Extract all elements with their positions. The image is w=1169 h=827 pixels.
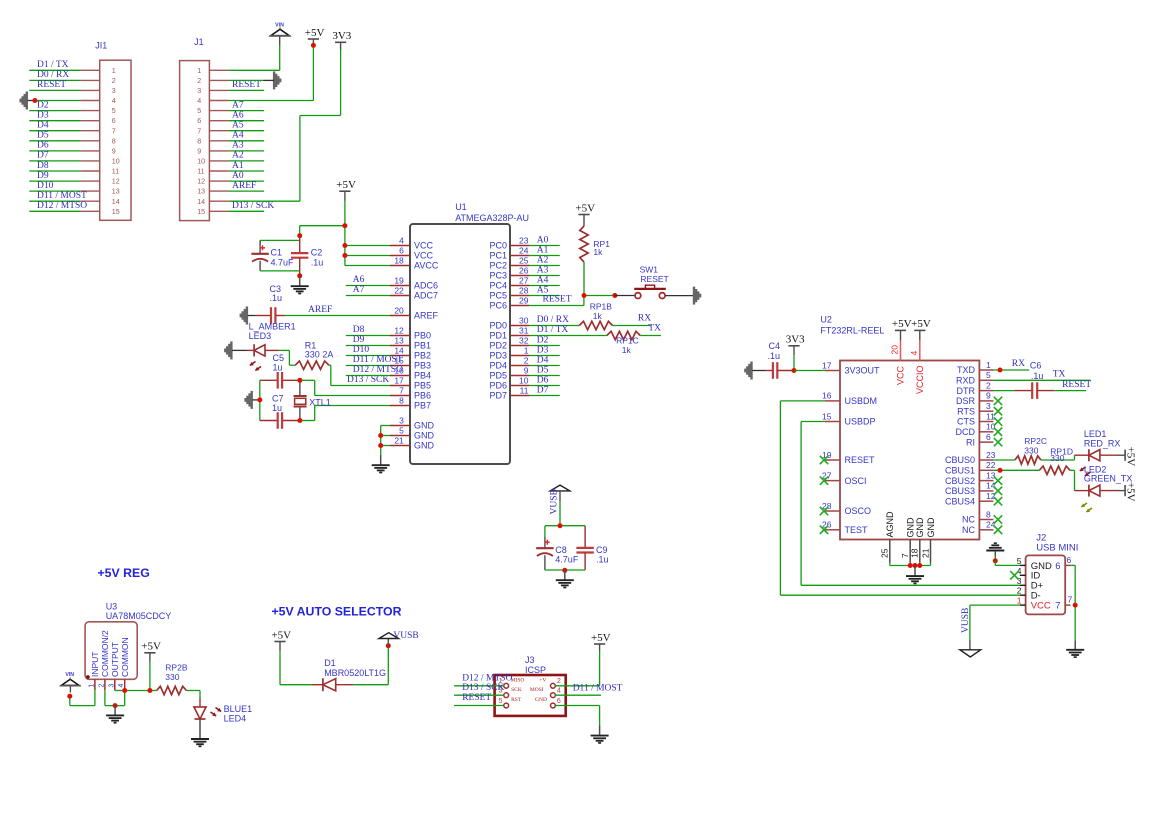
junction U1 GND 21	[378, 443, 383, 448]
svg-text:RESET: RESET	[640, 274, 668, 284]
capacitor C9 .1u	[576, 526, 608, 570]
svg-text:21: 21	[920, 548, 930, 558]
svg-text:D7: D7	[37, 151, 49, 161]
svg-text:9: 9	[524, 366, 529, 376]
svg-text:C1: C1	[271, 248, 283, 258]
svg-text:D2: D2	[537, 335, 549, 345]
wire net D3 at U1 right	[529, 355, 559, 357]
svg-text:D13 / SCK: D13 / SCK	[462, 683, 504, 693]
svg-text:AREF: AREF	[232, 181, 256, 191]
svg-text:CBUS3: CBUS3	[945, 486, 975, 496]
wire D1 to VUSB	[354, 646, 389, 685]
wire U3 common pins to ground	[105, 690, 125, 705]
svg-text:26: 26	[822, 520, 832, 530]
svg-text:A5: A5	[232, 121, 244, 131]
svg-text:D8: D8	[37, 161, 49, 171]
svg-text:PD4: PD4	[489, 361, 507, 371]
junction U2 gnd 3	[917, 563, 922, 568]
svg-text:1: 1	[986, 360, 991, 370]
connector J1	[180, 37, 229, 221]
svg-text:TXD: TXD	[957, 365, 976, 375]
svg-text:VUSB: VUSB	[393, 631, 418, 641]
svg-text:8: 8	[112, 137, 116, 145]
svg-text:VCC: VCC	[896, 365, 906, 385]
crystal XTL1	[294, 380, 331, 420]
junction U3 output/COMMON	[122, 688, 127, 693]
svg-text:GND: GND	[906, 517, 916, 538]
svg-text:D13 / SCK: D13 / SCK	[347, 375, 389, 385]
net label D11 / MOST	[37, 191, 87, 201]
svg-text:4: 4	[118, 684, 125, 688]
wire net D12 / MTSO at J3	[454, 685, 504, 687]
wire net A5 (J1 pin 7)	[229, 130, 264, 132]
svg-text:9: 9	[197, 148, 201, 156]
svg-text:24: 24	[986, 520, 996, 530]
svg-text:23: 23	[519, 236, 529, 246]
svg-text:U1: U1	[455, 202, 467, 212]
connector J3 ICSP	[495, 655, 566, 716]
wire net A0 (J1 pin 12)	[229, 180, 264, 182]
wire net AREF (J1 pin 13)	[229, 190, 264, 192]
junction U2 gnd 1	[908, 563, 913, 568]
wire net D1 / TX (JI1 pin 1)	[29, 69, 80, 71]
net label RX	[638, 314, 651, 324]
svg-text:32: 32	[519, 336, 529, 346]
U2 left pins	[822, 360, 880, 535]
resistor RP1B 1k	[579, 302, 612, 330]
net label D13 / SCK at J3	[462, 683, 504, 693]
net label A4 at J1	[232, 131, 244, 141]
svg-text:23: 23	[986, 450, 996, 460]
svg-text:D1 / TX: D1 / TX	[37, 60, 69, 70]
svg-text:A1: A1	[232, 161, 244, 171]
svg-text:D7: D7	[537, 385, 549, 395]
svg-text:PC4: PC4	[489, 281, 507, 291]
op-amp U1 ATMEGA328P-AU body	[410, 202, 529, 464]
svg-text:PD1: PD1	[489, 331, 507, 341]
wire net D13 / SCK (J1 pin 15)	[229, 210, 264, 212]
svg-text:18: 18	[394, 256, 404, 266]
svg-text:AREF: AREF	[414, 311, 439, 321]
svg-text:CTS: CTS	[957, 417, 975, 427]
wire JI1 pin 4 to ground	[35, 100, 81, 102]
wire J1 pin1 to VIN	[229, 37, 280, 71]
wire net D4 at U1 right	[529, 365, 559, 367]
capacitor C7 1u	[272, 394, 284, 429]
svg-text:3: 3	[197, 87, 201, 95]
svg-text:D9: D9	[37, 171, 49, 181]
wire U1 PD1 to RP1C	[529, 335, 607, 337]
svg-text:1: 1	[112, 67, 116, 75]
svg-text:6: 6	[112, 117, 116, 125]
svg-text:D6: D6	[537, 375, 549, 385]
wire net A6 at U1 left	[346, 285, 390, 287]
svg-text:.1u: .1u	[1031, 371, 1044, 381]
svg-text:LED3: LED3	[249, 331, 272, 341]
svg-text:1: 1	[524, 346, 529, 356]
wire net D6 at U1 right	[529, 385, 559, 387]
svg-text:NC: NC	[962, 515, 975, 525]
svg-text:17: 17	[394, 376, 404, 386]
power symbol +5V (U2 VCCIO)	[911, 318, 931, 330]
junction XTAL gnd	[257, 397, 262, 402]
svg-text:4.7uF: 4.7uF	[555, 554, 579, 564]
svg-text:A1: A1	[537, 245, 549, 255]
svg-text:XTL1: XTL1	[309, 397, 331, 407]
svg-text:4: 4	[399, 236, 404, 246]
wire C1/C2 top rail	[260, 240, 300, 244]
wire U1 PD0 to RP1B	[529, 325, 579, 327]
svg-text:13: 13	[986, 470, 996, 480]
svg-text:PD5: PD5	[489, 371, 507, 381]
net label D13 / SCK at U1	[347, 375, 389, 385]
U2 right pins	[945, 360, 996, 535]
svg-text:J1: J1	[194, 37, 204, 47]
wire RP1 to reset net	[584, 262, 615, 296]
svg-text:.1u: .1u	[270, 293, 283, 303]
ground (above J2 pin5)	[986, 543, 1004, 561]
svg-text:5: 5	[499, 698, 503, 705]
svg-text:8: 8	[986, 509, 991, 519]
wire RP2B to LED4	[186, 691, 200, 699]
svg-text:2: 2	[557, 678, 561, 685]
title +5V REG	[98, 566, 150, 580]
wire net A3 (J1 pin 9)	[229, 150, 264, 152]
junction TXD	[998, 368, 1003, 373]
svg-text:PB3: PB3	[414, 361, 431, 371]
junction 3V3/C4	[792, 368, 797, 373]
wire U1 PC6 to reset net	[529, 296, 584, 306]
svg-text:MBR0520LT1G: MBR0520LT1G	[324, 668, 386, 678]
svg-text:22: 22	[986, 460, 996, 470]
wire 3V3 to U2 3V3OUT	[794, 370, 825, 372]
wire net A7 at U1 left	[346, 295, 390, 297]
net label D0 / RX	[37, 70, 69, 80]
svg-text:D3: D3	[37, 111, 49, 121]
svg-text:7: 7	[112, 127, 116, 135]
svg-text:4: 4	[1017, 566, 1022, 576]
svg-text:UA78M05CDCY: UA78M05CDCY	[106, 611, 172, 621]
svg-text:PB4: PB4	[414, 371, 431, 381]
svg-text:25: 25	[880, 548, 890, 558]
wire CBUS0 to RP2C	[993, 459, 1015, 461]
junction U2 gnd 2	[913, 563, 918, 568]
svg-text:3V3OUT: 3V3OUT	[845, 366, 881, 376]
ground (below U1)	[372, 455, 390, 473]
svg-text:USBDP: USBDP	[845, 417, 876, 427]
svg-text:CBUS0: CBUS0	[945, 455, 975, 465]
LED LED4 BLUE1	[194, 698, 252, 724]
LED LED1 RED_RX	[1075, 429, 1121, 476]
power symbol +5V (U2 VCC)	[892, 318, 912, 330]
net label TX at U2	[1053, 370, 1066, 380]
wire net A1 at U1 right	[529, 255, 559, 257]
svg-text:RESET: RESET	[543, 295, 572, 305]
svg-text:A0: A0	[537, 235, 549, 245]
power symbol 3V3 (at C4)	[786, 334, 805, 371]
wire net D9 (JI1 pin 12)	[29, 180, 80, 182]
junction crystal top	[297, 378, 302, 383]
svg-text:D4: D4	[537, 355, 549, 365]
net label D10	[37, 181, 54, 191]
wire net D11 / MOST (JI1 pin 14)	[29, 200, 80, 202]
svg-text:PB1: PB1	[414, 341, 431, 351]
power symbol +5V (at J3)	[591, 632, 611, 644]
net label RESET at U2	[1062, 380, 1091, 390]
svg-text:PC1: PC1	[489, 251, 507, 261]
title +5V AUTO SELECTOR	[272, 604, 402, 618]
svg-text:+5V: +5V	[911, 318, 931, 330]
svg-text:.1u: .1u	[768, 351, 781, 361]
svg-text:330: 330	[1024, 445, 1038, 455]
junction J2 pin7	[1073, 603, 1078, 608]
wire net D7 (JI1 pin 10)	[29, 160, 80, 162]
svg-text:15: 15	[822, 411, 832, 421]
net label D4	[37, 121, 49, 131]
ground (below J3)	[591, 736, 609, 743]
wire J2 GND pin to ground	[995, 561, 1020, 566]
wire net D10 at U1 left	[346, 355, 390, 357]
svg-text:6: 6	[557, 698, 561, 705]
svg-text:D10: D10	[37, 181, 54, 191]
svg-text:7: 7	[900, 553, 910, 558]
svg-text:A7: A7	[353, 285, 365, 295]
wire J3 +V to +5V	[555, 644, 599, 686]
svg-text:29: 29	[519, 296, 529, 306]
net label D11 / MOST at J3	[573, 684, 623, 694]
svg-text:+5V: +5V	[1125, 482, 1137, 502]
svg-text:1: 1	[1017, 596, 1022, 606]
svg-text:30: 30	[519, 316, 529, 326]
svg-text:VCC: VCC	[1031, 601, 1051, 612]
svg-text:7: 7	[197, 127, 201, 135]
svg-text:DTR: DTR	[957, 386, 976, 396]
svg-text:A4: A4	[232, 131, 244, 141]
svg-text:JI1: JI1	[95, 41, 107, 51]
net label RESET at J3	[462, 693, 491, 703]
ground flag at J1 pin2	[264, 71, 281, 89]
svg-text:26: 26	[519, 266, 529, 276]
U2 bottom pins AGND GND	[880, 511, 936, 566]
junction U1 GND 5	[378, 433, 383, 438]
svg-text:ADC7: ADC7	[414, 291, 438, 301]
svg-text:20: 20	[394, 306, 404, 316]
wire net A7 (J1 pin 5)	[229, 110, 264, 112]
svg-text:11: 11	[112, 168, 119, 176]
svg-text:10: 10	[197, 158, 205, 166]
net label D0 / RX	[537, 315, 569, 325]
svg-text:+5V: +5V	[591, 632, 611, 644]
svg-text:RED_RX: RED_RX	[1084, 438, 1121, 448]
net label D2 at U1 right	[537, 335, 549, 345]
svg-text:OSCO: OSCO	[845, 506, 872, 516]
svg-text:D8: D8	[353, 325, 365, 335]
power symbol VUSB (below J2, down)	[960, 608, 981, 657]
svg-text:VIN: VIN	[275, 22, 284, 28]
svg-text:SW1: SW1	[640, 264, 659, 274]
svg-text:D1 / TX: D1 / TX	[537, 325, 569, 335]
svg-text:J3: J3	[525, 655, 535, 665]
svg-text:D10: D10	[353, 345, 370, 355]
junction VCC pin6	[342, 253, 347, 258]
junction VUSB rail	[558, 523, 563, 528]
svg-text:U3: U3	[106, 602, 118, 612]
svg-text:RESET: RESET	[462, 693, 491, 703]
svg-text:18: 18	[910, 548, 920, 558]
svg-text:RESET: RESET	[845, 455, 876, 465]
svg-text:2: 2	[112, 77, 116, 85]
svg-text:7: 7	[1068, 595, 1073, 605]
svg-text:15: 15	[112, 208, 120, 216]
wire net D9 at U1 left	[346, 345, 390, 347]
svg-text:AGND: AGND	[885, 511, 895, 538]
wire net D6 (JI1 pin 9)	[29, 150, 80, 152]
junction VIN	[67, 694, 72, 699]
junction U3 gnd	[113, 703, 118, 708]
power symbol +5V (above RP1)	[575, 202, 595, 214]
net label A3 at J1	[232, 141, 244, 151]
svg-text:2: 2	[524, 356, 529, 366]
wire net D2 at U1 right	[529, 345, 559, 347]
svg-text:LED4: LED4	[224, 714, 247, 724]
wire J1 pin4 to +5V	[229, 39, 314, 101]
svg-text:31: 31	[519, 326, 529, 336]
svg-text:D3: D3	[537, 345, 549, 355]
svg-text:13: 13	[112, 188, 120, 196]
svg-text:D13 / SCK: D13 / SCK	[232, 201, 274, 211]
capacitor C8 4.7uF	[536, 526, 579, 570]
junction +5V U3	[147, 688, 152, 693]
svg-text:+5V AUTO SELECTOR: +5V AUTO SELECTOR	[272, 604, 402, 618]
net label D8	[37, 161, 49, 171]
net label A2 at J1	[232, 151, 244, 161]
svg-text:4.7uF: 4.7uF	[271, 257, 295, 267]
svg-text:.1u: .1u	[596, 554, 609, 564]
net label D7 at U1 right	[537, 385, 549, 395]
wire net D0 / RX (JI1 pin 2)	[29, 79, 80, 81]
svg-text:D0 / RX: D0 / RX	[537, 315, 569, 325]
svg-text:D6: D6	[37, 141, 49, 151]
svg-text:ADC6: ADC6	[414, 281, 438, 291]
svg-text:8: 8	[399, 396, 404, 406]
svg-text:PB6: PB6	[414, 391, 431, 401]
wire J3 GND to ground	[555, 706, 599, 735]
junction JI1 pin4	[32, 98, 37, 103]
wire C1/C2 bottom rail	[260, 270, 300, 272]
svg-text:PB7: PB7	[414, 401, 431, 411]
ground (below LED4)	[191, 719, 209, 746]
ground flag at SW1	[694, 287, 700, 305]
svg-text:11: 11	[520, 386, 529, 396]
svg-text:3: 3	[399, 416, 404, 426]
junction J2 gnd	[993, 558, 998, 563]
svg-text:12: 12	[112, 178, 120, 186]
svg-text:RI: RI	[966, 437, 975, 447]
wire reset junction to switch	[615, 295, 635, 297]
svg-text:PD7: PD7	[489, 391, 507, 401]
svg-text:+5V: +5V	[141, 641, 161, 653]
junction reset/switch	[612, 293, 617, 298]
svg-text:GND: GND	[414, 441, 435, 451]
svg-text:CBUS1: CBUS1	[945, 466, 975, 476]
svg-text:9: 9	[112, 148, 116, 156]
power symbol VIN (top)	[269, 22, 290, 36]
resistor RP1 1k	[580, 215, 610, 263]
svg-text:12: 12	[197, 178, 205, 186]
wire net A1 (J1 pin 11)	[229, 170, 264, 172]
svg-text:11: 11	[986, 411, 995, 421]
svg-text:17: 17	[822, 360, 832, 370]
net label A0 at J1	[232, 171, 244, 181]
svg-text:PC0: PC0	[489, 241, 507, 251]
net label D12 / MTSO at J3	[462, 674, 512, 684]
svg-text:1: 1	[88, 684, 95, 688]
svg-text:FT232RL-REEL: FT232RL-REEL	[820, 325, 884, 335]
power symbol VUSB (at D1)	[379, 631, 419, 646]
svg-text:C2: C2	[311, 248, 323, 258]
svg-text:+5V: +5V	[336, 179, 356, 191]
net label D11 / MOST at U1 left	[353, 355, 403, 365]
capacitor C3 .1u	[255, 284, 285, 324]
wire RP1B to RX	[613, 325, 651, 327]
svg-text:A6: A6	[353, 275, 365, 285]
svg-text:16: 16	[822, 391, 832, 401]
capacitor C4 .1u	[765, 341, 794, 379]
svg-text:+5V: +5V	[271, 629, 291, 641]
wire net A4 (J1 pin 8)	[229, 140, 264, 142]
svg-text:GND: GND	[414, 431, 435, 441]
svg-text:3V3: 3V3	[786, 334, 805, 346]
svg-text:24: 24	[519, 246, 529, 256]
svg-text:6: 6	[1055, 561, 1060, 572]
svg-text:5: 5	[197, 107, 201, 115]
svg-text:5: 5	[399, 426, 404, 436]
op-amp U2 FT232RL-REEL body	[820, 315, 979, 540]
wire net A4 at U1 right	[529, 285, 559, 287]
net label D6 at U1 right	[537, 375, 549, 385]
svg-text:9: 9	[986, 391, 991, 401]
svg-text:TX: TX	[1053, 370, 1066, 380]
net label D10 at U1 left	[353, 345, 370, 355]
svg-text:10: 10	[986, 422, 996, 432]
svg-text:A7: A7	[232, 100, 244, 110]
svg-text:3: 3	[986, 401, 991, 411]
capacitor C5 1u	[273, 353, 285, 389]
net label TX	[648, 324, 661, 334]
svg-text:D2: D2	[37, 100, 49, 110]
wire net D12 / MTSO at U1 left	[346, 375, 390, 377]
net label D12 / MTSO	[37, 201, 87, 211]
svg-text:A6: A6	[232, 111, 244, 121]
net label D7	[37, 151, 49, 161]
net label A5 at J1	[232, 121, 244, 131]
svg-text:4: 4	[197, 97, 201, 105]
net label AREF	[308, 305, 332, 315]
U1 right pins	[489, 236, 529, 401]
svg-text:RX: RX	[638, 314, 651, 324]
svg-text:GND: GND	[535, 697, 547, 703]
power symbol VUSB (above C8)	[550, 485, 570, 514]
svg-text:2: 2	[986, 380, 991, 390]
svg-text:PC5: PC5	[489, 291, 507, 301]
wire LED3 to R1	[279, 350, 295, 365]
resistor RP2C 330	[1015, 436, 1047, 464]
net label RESET at U1 PC6	[543, 295, 572, 305]
capacitor C1 4.7uF	[251, 240, 294, 271]
wire J2 VCC to VUSB	[970, 605, 1020, 650]
svg-text:GND: GND	[926, 517, 936, 538]
wire net AREF to U1 pin20	[285, 315, 390, 317]
